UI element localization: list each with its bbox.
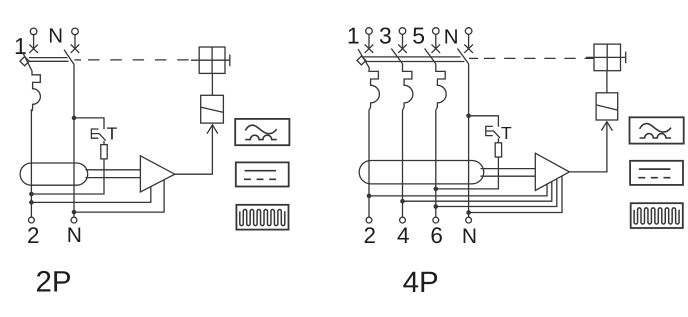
symbol box high frequency (2P) (236, 205, 288, 230)
wire supply pole 2 to amplifier (4P) (369, 184, 547, 196)
terminal N (2P) (71, 28, 80, 53)
contact blade pole N (2P) (64, 50, 74, 65)
resistor test (2P) (101, 145, 107, 159)
contact blade pole 1 (4P) (358, 49, 370, 68)
wire pole 1 (2P) (30, 109, 32, 217)
symbol box high frequency (4P) (631, 203, 683, 228)
trip signal wire (2P) (175, 126, 213, 174)
svg-text:1: 1 (347, 23, 360, 49)
terminal N (4P top) (464, 28, 473, 53)
secondary winding leads (2P) (86, 170, 141, 178)
mechanism box (4P) (586, 44, 626, 71)
linkage bar (2P) (29, 58, 69, 62)
symbol box smooth DC (2P) (236, 162, 289, 186)
svg-text:2: 2 (364, 223, 377, 248)
terminal 6 (4P bottom) (433, 217, 439, 223)
wire supply pole N to amplifier (4P) (469, 176, 562, 213)
wire pole 3 (4P) (402, 110, 404, 218)
wire N to test button (4P) (469, 116, 499, 127)
node test tap on N (2P) (72, 116, 77, 121)
dashed linkage line (2P) (75, 59, 200, 61)
contact blade pole 5 (4P) (425, 49, 436, 64)
symbol box smooth DC (4P) (630, 161, 683, 185)
amplifier (2P) (140, 156, 174, 192)
node test tap on pole 6 (4P) (434, 187, 439, 192)
node supply tap pole 6 (4P) (434, 204, 439, 209)
wire button to resistor (2P) (103, 141, 105, 145)
terminal N (2P bottom) (71, 217, 77, 223)
trip coil pole 1 (4P) (369, 69, 379, 110)
node test tap on N (4P) (466, 114, 471, 119)
trip coil pole 5 (4P) (436, 64, 446, 110)
svg-text:N: N (67, 224, 82, 247)
linkage diamond (4P) (357, 56, 366, 65)
svg-text:4P: 4P (403, 266, 439, 299)
trip coil pole 1 (2P) (32, 71, 40, 111)
node supply tap pole 2 (4P) (367, 194, 372, 199)
node supply tap pole N (2P) (72, 210, 77, 215)
wire relay to mechanism (2P) (211, 73, 213, 95)
terminal 2 (4P bottom) (366, 217, 372, 223)
arrowhead (2P) (207, 125, 218, 134)
arrowhead (4P) (601, 122, 612, 131)
dashed linkage line (4P) (469, 57, 594, 59)
svg-text:5: 5 (412, 23, 425, 49)
test button actuator (4P) (486, 126, 494, 135)
trip relay (4P) (596, 93, 618, 120)
svg-text:6: 6 (430, 223, 443, 248)
terminal 5 (4P top) (432, 28, 441, 53)
node supply tap pole 1 (2P) (29, 200, 34, 205)
wire supply pole 4 to amplifier (4P) (403, 182, 552, 202)
symbol box type A (4P) (630, 117, 684, 143)
symbol box type A (2P) (235, 119, 289, 145)
terminal 2 (2P bottom) (29, 217, 35, 223)
svg-text:N: N (462, 225, 477, 248)
wire supply pole 1 to amplifier (2P) (31, 186, 150, 202)
node supply tap pole N (4P) (466, 210, 471, 215)
wire button to resistor (4P) (497, 138, 499, 143)
contact blade pole N (4P) (457, 49, 468, 64)
secondary winding leads (4P) (481, 169, 536, 177)
wire resistor to pole 6 (4P) (436, 157, 499, 189)
svg-text:1: 1 (14, 33, 27, 59)
wire supply pole N to amplifier (2P) (74, 180, 164, 213)
linkage diamond (2P) (20, 57, 29, 66)
terminal 1 (4P top) (365, 28, 374, 53)
trip relay (2P) (201, 95, 224, 123)
mechanism box (2P) (191, 47, 230, 73)
test button blade (4P) (493, 131, 500, 138)
wire pole N (2P) (73, 64, 75, 217)
svg-text:N: N (48, 24, 63, 47)
svg-text:N: N (444, 26, 459, 49)
terminal 4 (4P bottom) (400, 217, 406, 223)
linkage bar (4P) (363, 57, 465, 62)
svg-text:T: T (107, 124, 118, 144)
current transformer toroid (4P) (359, 161, 484, 184)
resistor test (4P) (495, 143, 501, 157)
contact blade pole 1 (2P) (23, 52, 32, 71)
node supply tap pole 4 (4P) (400, 199, 405, 204)
contact blade pole 3 (4P) (391, 49, 402, 64)
test button blade (2P) (99, 133, 106, 140)
svg-text:4: 4 (397, 223, 410, 248)
amplifier (4P) (535, 153, 569, 190)
svg-text:3: 3 (379, 23, 392, 49)
terminal N (4P bottom) (466, 217, 472, 223)
current transformer toroid (2P) (20, 163, 88, 185)
wire pole 1 (4P) (368, 110, 370, 218)
svg-text:T: T (501, 123, 512, 143)
wire pole 5 (4P) (435, 110, 437, 218)
terminal 1 (2P) (29, 28, 38, 53)
wire N to test button (2P) (74, 118, 104, 129)
test button actuator (2P) (91, 129, 99, 138)
svg-text:2: 2 (27, 223, 40, 248)
svg-text:2P: 2P (35, 265, 71, 298)
wire relay to mechanism (4P) (606, 71, 608, 93)
wire supply pole 6 to amplifier (4P) (436, 179, 557, 207)
node test tap on pole 1 (2P) (29, 192, 34, 197)
terminal 3 (4P top) (398, 28, 407, 53)
wire resistor to pole 1 (2P) (31, 159, 104, 194)
trip signal wire (4P) (569, 123, 607, 172)
wire pole N (4P) (468, 64, 470, 218)
trip coil pole 3 (4P) (403, 64, 413, 110)
